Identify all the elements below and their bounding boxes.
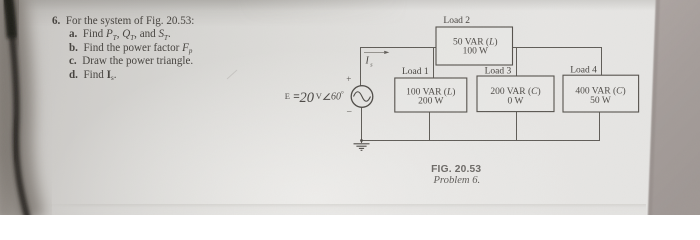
svg-text:100 W: 100 W [463, 46, 488, 56]
pencil scratch mark [227, 70, 237, 79]
svg-text:Load 4: Load 4 [570, 65, 597, 75]
svg-text:0 W: 0 W [508, 96, 524, 106]
svg-text:+: + [346, 74, 351, 84]
svg-text:Load 2: Load 2 [443, 16, 470, 26]
load 2 box [436, 27, 513, 65]
problem statement text [52, 15, 312, 83]
ground [354, 144, 370, 151]
bottom page edge [40, 204, 646, 215]
svg-text:FIG. 20.53: FIG. 20.53 [431, 164, 481, 175]
svg-text:Load 3: Load 3 [485, 66, 512, 76]
svg-text:E: E [285, 91, 290, 101]
wire source bottom to ground [361, 107, 363, 143]
wire top-left vertical from source to top rail [360, 48, 362, 86]
wire top rail left segment [360, 47, 436, 49]
svg-text:–: – [346, 106, 352, 116]
svg-text:50 W: 50 W [590, 96, 611, 106]
svg-text:V: V [316, 91, 323, 101]
wire Load 3 bottom drop [516, 112, 518, 141]
top-left shaded strip of scan [0, 0, 430, 26]
load 3 box [477, 76, 554, 112]
svg-text:200 W: 200 W [418, 96, 443, 106]
svg-text:I: I [365, 56, 370, 67]
svg-text:s: s [370, 62, 373, 68]
svg-text:400 VAR (C): 400 VAR (C) [575, 85, 625, 96]
svg-text:200 VAR (C): 200 VAR (C) [490, 86, 540, 97]
left book-spine dark band [0, 0, 90, 215]
right page-edge gray band [640, 0, 700, 215]
source label E = 20 V angle 60 [285, 90, 344, 106]
junction dot at ground node [360, 139, 363, 142]
load 4 box [563, 75, 639, 112]
ac source E [351, 86, 373, 108]
wire Load 4 bottom drop [599, 112, 601, 141]
svg-text:60: 60 [331, 91, 341, 102]
svg-text:Load 1: Load 1 [402, 67, 429, 77]
wire Load 1 bottom drop [429, 112, 431, 141]
svg-text:°: ° [341, 90, 344, 98]
wire junction drop to Load 1 [433, 48, 435, 79]
svg-text:20: 20 [300, 90, 315, 106]
wire bottom rail [361, 140, 600, 142]
svg-text:Problem 6.: Problem 6. [432, 175, 480, 186]
load 1 box [395, 78, 467, 112]
wire right corner drop to Load 4 [601, 48, 603, 76]
wire drop to Load 3 [516, 48, 518, 77]
current arrow Is [364, 51, 389, 69]
wire top rail right segment after Load 2 [513, 47, 603, 49]
